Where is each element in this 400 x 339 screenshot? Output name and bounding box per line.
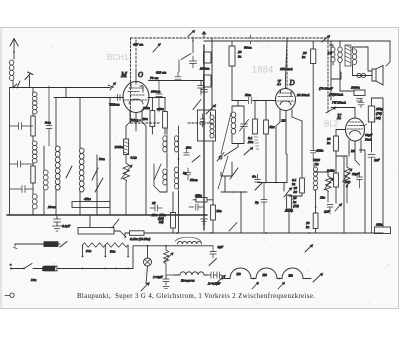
- wire 50Ma: [336, 130, 346, 157]
- svg-text:ka: ka: [327, 141, 331, 145]
- pot arrow: [121, 165, 132, 179]
- component box on rails lower: [204, 75, 212, 87]
- wire x152: [151, 98, 153, 135]
- wire grid row to boxes: [148, 97, 165, 99]
- wire V2 plate pin down: [276, 122, 280, 126]
- svg-text:20a: 20a: [152, 213, 158, 217]
- cap below 1000: [357, 99, 363, 102]
- tube V2 envelope: [276, 89, 296, 111]
- tank bottom lead: [224, 144, 238, 157]
- resistor 0,1 box x255: [253, 119, 258, 134]
- slash arrow x248: [244, 147, 253, 155]
- svg-text:E: E: [336, 113, 342, 121]
- IF T1 lower coil a: [163, 169, 167, 185]
- capacitor 900cm: [156, 81, 162, 113]
- zigzag stubs: [83, 245, 129, 257]
- resistor box x30 lower: [31, 166, 35, 183]
- cap 6uF row B end: [210, 246, 216, 258]
- svg-text:ka: ka: [238, 55, 242, 59]
- transformer core hatched: [345, 45, 351, 66]
- IF transformer T1 coil b: [174, 135, 178, 154]
- bus y233: [144, 232, 383, 234]
- tube V1 grid cap line: [135, 40, 137, 70]
- resistor 100Ra striped: [124, 139, 129, 155]
- IF T1 lower coil b: [174, 167, 178, 189]
- tube V1 pins: [130, 110, 142, 125]
- svg-text:45ka: 45ka: [84, 197, 91, 201]
- svg-text:7W 20mA: 7W 20mA: [332, 101, 347, 105]
- capacitor 610: [175, 72, 181, 79]
- switch lever 2: [218, 156, 228, 189]
- resistor box lower-left: [78, 228, 114, 235]
- svg-text:Z: Z: [277, 79, 281, 87]
- node T1: [178, 158, 180, 160]
- ground bus thick: [7, 214, 207, 216]
- connection arrow grid: [110, 83, 116, 90]
- minus terminal: [5, 293, 14, 297]
- svg-text:1μF: 1μF: [324, 210, 331, 214]
- rail x259: [232, 100, 259, 102]
- osc switch lower: [193, 100, 201, 110]
- wire 10Ra: [315, 190, 317, 233]
- tall coil x80: [79, 98, 84, 216]
- choke bumps row B: [178, 241, 202, 244]
- svg-text:1/2: 1/2: [328, 51, 333, 55]
- svg-text:260cm: 260cm: [200, 67, 210, 71]
- arrow below lamp: [141, 283, 149, 291]
- wire 15k: [172, 192, 174, 233]
- B+ wire y41: [204, 40, 390, 42]
- svg-text:O: O: [138, 71, 143, 79]
- svg-text:BCH1: BCH1: [107, 53, 129, 62]
- slash below Ge: [255, 183, 262, 190]
- coil column x30 upper: [32, 88, 37, 117]
- arrow right B+: [322, 35, 330, 42]
- fuse box row D: [42, 266, 57, 271]
- wire V2 pin3: [292, 110, 302, 179]
- coil column x30 bottom: [32, 183, 37, 215]
- voice coil circles: [357, 73, 361, 77]
- tank coil: [231, 112, 236, 134]
- row D nodes: [82, 268, 84, 270]
- arrow E stage: [335, 204, 342, 211]
- resistor 20Ra top-right box: [311, 49, 316, 64]
- svg-text:W22cm: W22cm: [109, 103, 120, 107]
- tank lower rail: [221, 162, 247, 233]
- row D battery line: [11, 268, 133, 270]
- svg-text:55cm: 55cm: [190, 178, 198, 182]
- capacitor 0.1uF with ground: [53, 215, 62, 231]
- antenna switch: [25, 72, 33, 80]
- resistor X20 box: [163, 112, 168, 129]
- wire grid return x110: [109, 98, 111, 216]
- wire x165: [164, 98, 166, 135]
- svg-text:34a: 34a: [31, 278, 37, 282]
- resistor 150p box: [368, 106, 374, 122]
- arrow on rail top: [202, 31, 206, 38]
- resistor 0.1Ka box: [300, 178, 305, 193]
- potentiometer x328: [326, 176, 332, 202]
- svg-text:H3: H3: [236, 272, 242, 276]
- capacitor 3cm: [46, 86, 52, 146]
- svg-text:Erregerw.: Erregerw.: [180, 279, 195, 283]
- coil x44: [43, 146, 48, 215]
- tube V3 envelope: [346, 118, 365, 141]
- wire row B: [125, 233, 213, 269]
- svg-text:D: D: [289, 79, 295, 87]
- svg-text:50m: 50m: [245, 93, 252, 97]
- oscillator can box: [198, 110, 216, 141]
- tube V3 internals: [347, 122, 363, 129]
- resistor 15k box: [171, 213, 176, 229]
- capacitor x201: [198, 86, 205, 96]
- switch row D: [24, 264, 32, 269]
- svg-text:Ge: Ge: [252, 175, 257, 179]
- rail x365: [360, 150, 366, 233]
- cap 1uF mid: [261, 183, 267, 234]
- capacitor to left rail upper: [10, 123, 34, 130]
- resistor box x30: [31, 116, 35, 136]
- arrows below row: [284, 188, 292, 197]
- coil x314: [314, 163, 318, 190]
- wire antenna to junction: [13, 76, 30, 88]
- svg-text:M: M: [120, 71, 128, 79]
- tank circuit loop: [232, 106, 244, 144]
- svg-text:R3: R3: [350, 149, 355, 153]
- output transformer primary winding a: [331, 47, 335, 62]
- svg-text:Blaupunkt, Super 3 G 4, Gleic: Blaupunkt, Super 3 G 4, Gleichstrom, 1 V…: [77, 293, 315, 300]
- cap 20Ma: [184, 150, 189, 156]
- tube V1 envelope: [123, 82, 149, 113]
- resistor 0.8 box: [334, 173, 339, 187]
- svg-text:3μ: 3μ: [183, 171, 187, 175]
- svg-text:20ka: 20ka: [317, 149, 324, 153]
- potentiometer below V1: [123, 155, 130, 216]
- osc switch top: [179, 41, 193, 72]
- svg-text:3cm: 3cm: [45, 121, 51, 125]
- cap at top of V3: [358, 99, 364, 108]
- svg-text:ka: ka: [302, 55, 306, 59]
- wires E pins to bus: [344, 154, 360, 233]
- IF T1 wires: [160, 126, 179, 233]
- shield box dashed top: [131, 37, 329, 39]
- capacitor 10/20: [150, 205, 162, 211]
- cap 10uF: [357, 172, 363, 188]
- resistor zigzag 5k: [105, 243, 128, 247]
- antenna: [10, 39, 18, 60]
- lamp: [144, 258, 152, 266]
- tube V3 top wire: [354, 108, 356, 119]
- svg-text:20ka: 20ka: [143, 106, 150, 110]
- svg-text:70 cm: 70 cm: [150, 76, 159, 80]
- svg-text:10ka: 10ka: [376, 223, 383, 227]
- arrow above osc switch: [188, 30, 195, 36]
- shield box dashed right: [327, 38, 329, 112]
- switch tank: [230, 168, 238, 179]
- resistor 5Ma box: [264, 120, 269, 134]
- svg-text:R2: R2: [281, 119, 286, 123]
- switch lever: [221, 113, 231, 154]
- shield dashed divider x287: [286, 38, 288, 88]
- svg-text:25ka): 25ka): [285, 209, 294, 213]
- potentiometer vertical x166: [164, 246, 169, 272]
- slash arrow x234: [229, 223, 237, 232]
- wire left rail: [9, 88, 11, 216]
- arrow left of humps: [216, 275, 225, 283]
- switch contact x99: [95, 178, 103, 192]
- arrow right of humps: [313, 273, 323, 282]
- wire box to bus: [90, 215, 126, 237]
- tall coil x56: [55, 98, 60, 216]
- svg-text:H2: H2: [288, 274, 294, 278]
- cap Ge: [255, 174, 261, 182]
- cap 2x0.5uF: [208, 272, 217, 278]
- svg-text:5ka: 5ka: [217, 209, 222, 213]
- svg-text:610 cm: 610 cm: [156, 71, 167, 75]
- capacitor 80cm: [247, 35, 254, 44]
- wire 0.8: [335, 156, 337, 203]
- cap below pot: [163, 272, 169, 285]
- svg-text:150p: 150p: [376, 107, 383, 111]
- svg-text:5ka: 5ka: [270, 125, 275, 129]
- cap 1uF E: [327, 205, 333, 215]
- switch slash below bus: [112, 219, 119, 228]
- svg-text:1×2μF: 1×2μF: [153, 275, 164, 279]
- svg-text:(70): (70): [376, 112, 383, 116]
- tank trimmer cap: [241, 124, 248, 127]
- svg-text:90pF: 90pF: [365, 133, 373, 137]
- connection arrow top: [153, 44, 161, 52]
- svg-text:1884: 1884: [252, 65, 274, 75]
- wire 150p: [371, 98, 373, 152]
- resistor zigzag 3k: [83, 243, 106, 247]
- wire E grid row: [331, 41, 355, 108]
- svg-text:a: a: [346, 184, 348, 188]
- shield dashed divider x212: [211, 38, 213, 110]
- fuse box row C: [43, 242, 58, 247]
- tube V1 internals: [124, 88, 148, 100]
- wire bus horizontal y97: [54, 97, 124, 99]
- switch T1 left: [154, 164, 161, 192]
- svg-text:1μF: 1μF: [374, 158, 381, 162]
- capacitor 50m: [249, 97, 252, 104]
- ground at rail 204: [201, 219, 208, 224]
- shield box dashed left: [130, 38, 132, 123]
- arrow on rail: [206, 105, 216, 114]
- cap 15: [189, 204, 204, 210]
- svg-text:7mA: 7mA: [365, 138, 372, 142]
- grid cap W22cm: [110, 95, 123, 101]
- resistor 20ka box: [287, 195, 292, 209]
- node row B: [147, 245, 149, 247]
- svg-text:487 cm: 487 cm: [133, 43, 144, 47]
- output transformer primary winding b: [338, 47, 342, 63]
- svg-text:20 20mA: 20 20mA: [297, 93, 310, 97]
- cap on rail: [201, 90, 208, 93]
- wire bus horizontal y86: [10, 87, 111, 89]
- row y180.5: [258, 126, 288, 183]
- resistor 20ka dropper: [229, 46, 235, 66]
- resistor 20k box: [150, 111, 155, 127]
- svg-text:100ka: 100ka: [115, 145, 124, 149]
- arrows below humps: [252, 282, 259, 289]
- capacitor to left rail lower: [10, 186, 34, 193]
- arrow E: [326, 107, 336, 113]
- svg-text:7μ: 7μ: [255, 201, 259, 205]
- rail x212: [211, 41, 213, 110]
- svg-text:20a: 20a: [143, 117, 149, 121]
- node antenna junction: [12, 87, 14, 89]
- grid wire V2: [259, 101, 276, 121]
- component box on rails upper: [204, 52, 212, 63]
- output transformer secondary winding: [352, 49, 356, 65]
- svg-text:1ka: 1ka: [320, 196, 325, 200]
- svg-text:54a: 54a: [110, 250, 116, 254]
- IF humps H3 H4 H2: [222, 268, 311, 279]
- rail x204 thick: [203, 45, 205, 230]
- svg-text:ka: ka: [306, 225, 310, 229]
- wire stub x66: [65, 88, 67, 98]
- speaker top wire: [386, 41, 390, 66]
- tube V2 pins: [280, 110, 286, 155]
- resistor 10Ra box: [313, 213, 318, 229]
- svg-text:20: 20: [238, 50, 242, 54]
- svg-text:R1: R1: [130, 118, 135, 122]
- IF transformer T1 coil a: [163, 135, 167, 154]
- svg-text:1μ: 1μ: [315, 162, 319, 166]
- antenna coil L1: [9, 60, 14, 81]
- svg-text:6μF: 6μF: [218, 245, 225, 249]
- Erregerw row: [173, 272, 208, 275]
- transformer wires: [330, 41, 373, 91]
- tube V3 pins: [349, 140, 361, 154]
- resistor 50Ma box: [334, 136, 339, 151]
- svg-text:1000a: 1000a: [351, 86, 360, 90]
- switch contact x68: [66, 166, 72, 178]
- capacitor 260cm: [190, 56, 197, 68]
- cap x371: [368, 155, 375, 234]
- capacitor left mid: [10, 161, 34, 167]
- resistor 1000 box: [354, 90, 365, 96]
- switch below 6uF: [209, 259, 217, 266]
- speaker: [372, 66, 383, 86]
- svg-text:(10): (10): [293, 204, 300, 208]
- svg-text:34a: 34a: [86, 249, 92, 253]
- osc can coil: [210, 112, 214, 138]
- svg-text:10: 10: [152, 201, 156, 205]
- svg-text:H4: H4: [262, 273, 268, 277]
- shield box dashed bottom-left: [131, 122, 213, 124]
- switch slash row C: [60, 242, 67, 248]
- resistor 15Ma box: [196, 198, 207, 203]
- terminal circle: [219, 156, 222, 159]
- svg-text:80cm: 80cm: [244, 46, 252, 50]
- svg-text:30: 30: [294, 190, 298, 194]
- coil column x30 middle: [32, 136, 37, 166]
- tube V2 internals: [277, 93, 294, 101]
- cap 20Ma E: [310, 148, 316, 160]
- tube V2 top cap: [286, 41, 288, 89]
- row C battery line: [15, 243, 60, 245]
- svg-text:900cm: 900cm: [151, 90, 161, 94]
- node bus: [176, 232, 178, 234]
- resistor 5k box: [211, 205, 216, 220]
- arrow top right area: [305, 245, 313, 252]
- svg-text:15ka: 15ka: [195, 194, 202, 198]
- wire V1 pins down: [126, 122, 146, 215]
- wire pot top: [336, 153, 349, 168]
- wire x97 vertical: [96, 155, 98, 215]
- cap 55cm: [185, 168, 191, 180]
- right rail x383: [372, 98, 384, 227]
- wire 5k: [212, 141, 214, 233]
- svg-text:x20a: x20a: [156, 107, 164, 111]
- osc can capacitor: [200, 114, 205, 127]
- wire 20Ra: [312, 41, 314, 148]
- svg-text:5cm: 5cm: [99, 157, 105, 161]
- wiper hatches: [254, 137, 259, 149]
- tank top feed: [237, 101, 239, 107]
- potentiometer x347: [345, 167, 351, 203]
- switch mid: [192, 156, 200, 163]
- resistor 0.1k horizontal box: [130, 231, 145, 236]
- switch contact x94: [92, 168, 98, 180]
- svg-text:20a: 20a: [186, 146, 192, 150]
- svg-text:10μF: 10μF: [352, 172, 360, 176]
- resistor 10Ra bottom right: [375, 227, 391, 234]
- node humps: [253, 278, 255, 280]
- node: [65, 87, 67, 89]
- resistor 45k horizontal: [72, 202, 110, 208]
- svg-text:150 1mA: 150 1mA: [280, 67, 293, 71]
- oscillator grid line y80: [149, 80, 205, 82]
- svg-text:20a: 20a: [248, 140, 254, 144]
- svg-text:20cm: 20cm: [48, 205, 56, 209]
